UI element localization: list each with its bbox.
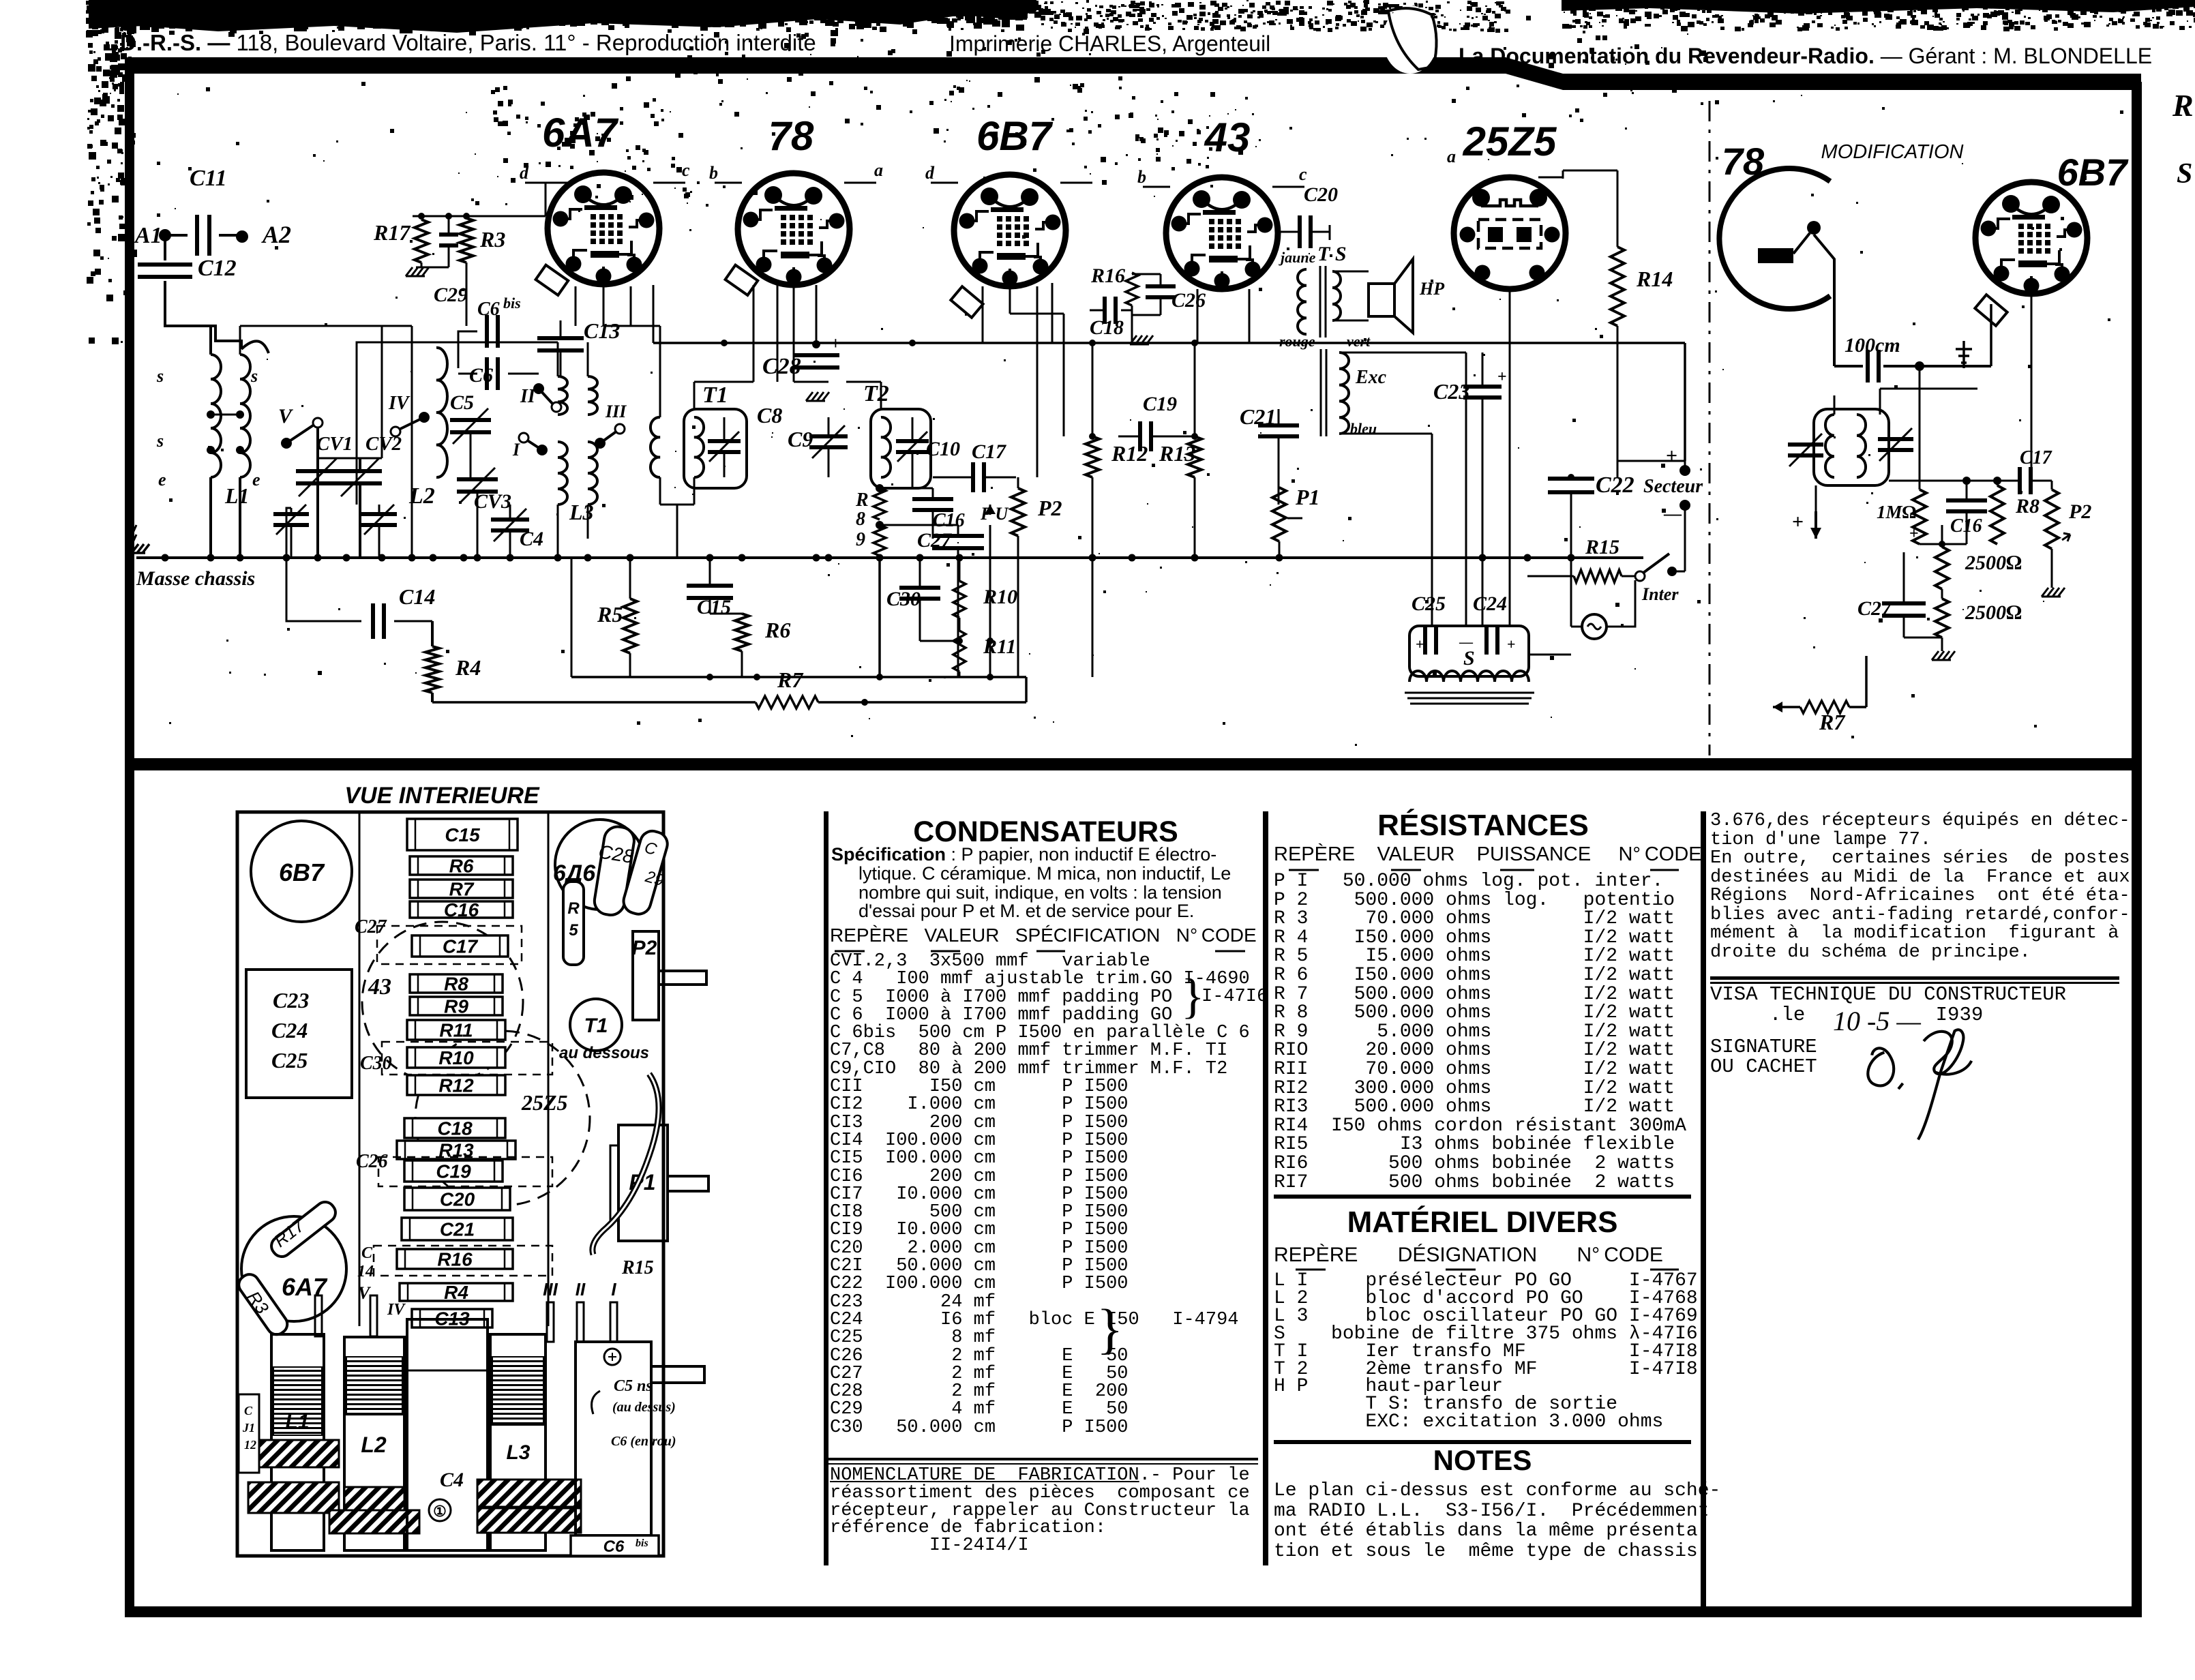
wires L3 to bus	[557, 505, 559, 558]
svg-text:C6: C6	[603, 1537, 625, 1556]
svg-text:C27: C27	[917, 529, 952, 552]
svg-text:R17: R17	[373, 220, 411, 245]
resistor R13	[1188, 436, 1201, 477]
switch I	[537, 445, 548, 455]
svg-text:100cm: 100cm	[1845, 334, 1900, 357]
resistor R8 (mod)	[1990, 485, 2004, 544]
mod wires	[1990, 304, 1992, 366]
svg-text:C: C	[244, 1404, 253, 1417]
svg-text:R7: R7	[449, 879, 475, 900]
svg-text:T1: T1	[702, 382, 728, 408]
svg-text:II: II	[520, 386, 536, 407]
svg-text:C21: C21	[1240, 404, 1276, 429]
frame bottom	[125, 1606, 2142, 1617]
svg-text:R7: R7	[1819, 710, 1846, 734]
trimmer C4	[491, 517, 529, 522]
svg-text:c: c	[1299, 164, 1307, 184]
svg-text:S: S	[2177, 158, 2192, 190]
potentiometer P2	[1011, 488, 1025, 536]
dashed circle 25Z5	[415, 1031, 590, 1205]
svg-text:I: I	[611, 1279, 616, 1300]
connector leads I II III	[547, 1302, 554, 1342]
capacitor C12	[138, 262, 192, 267]
svg-text:6A7: 6A7	[542, 110, 619, 155]
svg-text:C15: C15	[445, 824, 480, 845]
svg-text:C17: C17	[443, 936, 479, 957]
small antenna mark	[1956, 341, 1972, 368]
svg-text:R12: R12	[438, 1075, 474, 1096]
tube 6A7	[548, 172, 659, 284]
svg-text:R13: R13	[1159, 441, 1195, 466]
svg-text:I: I	[512, 440, 520, 460]
svg-text:C26: C26	[356, 1151, 388, 1172]
dashed C26	[378, 1157, 552, 1186]
svg-text:25Z5: 25Z5	[1463, 119, 1557, 164]
wire C12 to L1	[165, 281, 241, 349]
trimmer below CV1	[273, 512, 309, 516]
vertical wires misc	[1131, 315, 1133, 343]
resistor R9	[873, 525, 886, 556]
capacitor C29 cylinder	[621, 828, 670, 917]
coil tower L3	[490, 1334, 546, 1550]
wire 6A7 to T1	[603, 285, 605, 326]
ground bus	[136, 556, 1643, 559]
svg-text:C8: C8	[757, 403, 782, 427]
wire L1 top to bus	[209, 326, 212, 355]
capacitor C14	[286, 508, 361, 621]
svg-text:C19: C19	[436, 1161, 471, 1182]
wire secteur plus	[1617, 461, 1685, 470]
svg-text:b: b	[1137, 167, 1146, 187]
svg-text:C4: C4	[440, 1469, 464, 1491]
trimmer C9	[809, 434, 848, 438]
capacitor C18	[1103, 297, 1107, 324]
6A7 tag	[536, 265, 569, 295]
svg-text:c: c	[682, 160, 690, 180]
svg-text:C16: C16	[444, 899, 479, 920]
svg-text:5: 5	[569, 921, 578, 940]
svg-text:a: a	[874, 160, 883, 180]
chip C15	[407, 819, 518, 850]
svg-text:R: R	[855, 490, 869, 511]
coil L1 secondary	[240, 355, 250, 477]
svg-text:+: +	[1909, 525, 1919, 543]
resistor R4	[431, 621, 434, 646]
6B7mod tag	[1975, 295, 2007, 326]
svg-text:8: 8	[856, 509, 865, 530]
choke S winding	[1409, 671, 1529, 682]
wire rail y993	[571, 676, 1026, 678]
white blob in header bar	[1383, 5, 1437, 74]
svg-text:a: a	[1447, 147, 1456, 166]
svg-text:C: C	[361, 1244, 373, 1262]
6B7 tag	[951, 286, 983, 318]
wire exc to circuit	[1339, 352, 1466, 354]
capacitor C26	[1146, 284, 1176, 288]
page noise speckle	[89, 0, 1036, 33]
AC source	[1582, 614, 1607, 639]
svg-text:C14: C14	[399, 584, 435, 609]
svg-text:IV: IV	[387, 1301, 406, 1319]
transformer T1	[684, 409, 747, 488]
resistor 1M	[1913, 490, 1926, 544]
svg-text:R6: R6	[764, 618, 790, 642]
svg-text:Secteur: Secteur	[1643, 476, 1703, 497]
svg-text:J1: J1	[242, 1421, 255, 1435]
dash-dot separator	[1709, 101, 1711, 755]
potentiometer P1	[1272, 487, 1286, 541]
wire 6B7 connections	[982, 286, 984, 343]
resistor 2500b	[1935, 599, 1949, 637]
switch Inter	[1635, 571, 1645, 581]
chip C16	[410, 901, 513, 918]
chip C13	[412, 1309, 492, 1327]
svg-text:C5: C5	[450, 391, 474, 414]
signature	[1868, 1030, 1971, 1139]
svg-text:R11: R11	[983, 635, 1016, 658]
svg-text:2500Ω: 2500Ω	[1965, 601, 2022, 624]
capacitor C28	[816, 285, 818, 344]
svg-text:C6 (en rou): C6 (en rou)	[611, 1434, 676, 1449]
column rule 1	[824, 811, 828, 1565]
svg-text:R6: R6	[449, 856, 474, 877]
capacitor C21	[1258, 423, 1299, 427]
svg-text:P1: P1	[1295, 485, 1320, 509]
svg-text:d: d	[925, 163, 935, 183]
svg-text:R4: R4	[444, 1282, 468, 1303]
svg-text:R8: R8	[2015, 495, 2040, 517]
wire 78 plate to T2	[793, 285, 795, 382]
svg-text:9: 9	[856, 529, 865, 550]
wire top rail to 6A7	[421, 216, 423, 220]
svg-text:Inter: Inter	[1641, 584, 1679, 604]
svg-text:C30: C30	[886, 588, 921, 610]
svg-text:Exc: Exc	[1355, 367, 1387, 388]
svg-text:V: V	[278, 405, 294, 427]
svg-text:C30: C30	[360, 1053, 392, 1074]
dashed C30	[382, 1042, 552, 1075]
node A1	[159, 229, 171, 241]
svg-text:R: R	[2172, 88, 2194, 123]
resistor R17	[415, 220, 428, 262]
svg-text:C27: C27	[1857, 597, 1892, 620]
svg-text:T1: T1	[584, 1015, 608, 1037]
svg-text:C5 ns: C5 ns	[614, 1377, 653, 1395]
svg-text:A2: A2	[261, 221, 291, 248]
tube 6B7	[954, 175, 1066, 286]
chip R4	[400, 1283, 513, 1301]
capacitor C17	[933, 487, 963, 489]
svg-text:43: 43	[1204, 115, 1251, 160]
coil L3	[558, 376, 567, 415]
transformer T1 (chassis)	[570, 999, 622, 1051]
wire 25Z5 top	[1538, 177, 1563, 179]
small C11 C12 box	[239, 1394, 259, 1473]
svg-text:2500Ω: 2500Ω	[1965, 552, 2022, 574]
svg-text:A1: A1	[134, 223, 162, 248]
svg-text:R15: R15	[621, 1257, 654, 1278]
svg-text:C18: C18	[437, 1118, 473, 1139]
resistor R16	[1126, 273, 1138, 305]
coil top hook	[241, 341, 269, 353]
divider bar between schematic and lists	[125, 758, 2141, 770]
svg-text:C17: C17	[972, 440, 1006, 463]
column rule 2	[1263, 811, 1268, 1565]
svg-text:bis: bis	[636, 1537, 648, 1549]
trimmer below CV2	[361, 512, 397, 516]
wire 43 connections	[1197, 289, 1199, 343]
capacitor C16	[912, 497, 953, 501]
chip C18	[404, 1118, 505, 1138]
capacitor C28 cylinder	[593, 825, 636, 917]
variable capacitor CV3	[457, 477, 498, 481]
svg-text:①: ①	[433, 1503, 447, 1520]
wire T1 top/bottom	[693, 382, 696, 409]
svg-text:6B7: 6B7	[976, 113, 1054, 159]
coil tower L2	[344, 1337, 404, 1550]
svg-text:e: e	[252, 470, 260, 490]
C6bis box	[571, 1535, 659, 1556]
svg-text:R8: R8	[444, 974, 468, 995]
resistor R3	[460, 218, 473, 262]
column rule 3	[1701, 811, 1706, 1606]
capacitor C11	[165, 234, 188, 237]
capacitor C29	[439, 232, 458, 237]
svg-text:e: e	[158, 470, 166, 490]
tube 6B7 location	[251, 821, 352, 922]
switch IV	[419, 412, 430, 423]
svg-text:C9: C9	[788, 427, 813, 451]
svg-text:S: S	[1463, 647, 1475, 670]
svg-text:rouge: rouge	[1279, 333, 1315, 350]
svg-text:CV3: CV3	[474, 490, 511, 513]
svg-text:L1: L1	[285, 1411, 309, 1433]
capacitor C24	[1484, 627, 1489, 655]
mod IF transformer	[1814, 409, 1889, 485]
chip R8	[410, 974, 503, 993]
svg-text:C24: C24	[1473, 592, 1507, 615]
svg-text:R7: R7	[777, 667, 804, 692]
svg-text:III: III	[543, 1279, 558, 1300]
svg-text:P2: P2	[632, 937, 657, 959]
svg-text:vert: vert	[1347, 333, 1371, 350]
resistor R15	[1527, 575, 1574, 577]
capacitor C20	[1298, 215, 1302, 248]
svg-text:b: b	[709, 163, 718, 183]
chip C21	[402, 1218, 513, 1240]
resistor R7 inline	[432, 701, 756, 704]
wire R15 (chassis)	[593, 1074, 659, 1255]
chip R7	[410, 880, 513, 898]
svg-text:C27: C27	[355, 916, 387, 937]
tube 6D6 location	[555, 820, 645, 910]
variable capacitor CV1	[296, 469, 340, 473]
svg-text:6B7: 6B7	[279, 858, 325, 886]
chip R6	[410, 856, 513, 875]
resistor R7 (mod)	[1773, 706, 1800, 708]
wire T2 verticals	[880, 382, 882, 409]
resistor R8	[873, 488, 886, 520]
svg-text:R10: R10	[438, 1047, 474, 1068]
svg-text:(au dessus): (au dessus)	[612, 1400, 676, 1415]
right tower C5 C6	[576, 1342, 651, 1535]
svg-text:II: II	[576, 1279, 586, 1300]
svg-text:IV: IV	[388, 393, 410, 414]
dashed C14	[374, 1246, 552, 1276]
P2 shaft (chassis)	[706, 971, 707, 972]
capacitor C17 (mod)	[2018, 467, 2022, 494]
svg-text:C11: C11	[190, 166, 227, 191]
potentiometer P2 (mod)	[2045, 490, 2059, 549]
tube 78	[738, 173, 850, 285]
heater wire top	[753, 285, 755, 382]
resistor 2500a	[1935, 547, 1949, 589]
capacitor C22	[1548, 477, 1594, 481]
svg-text:L1: L1	[224, 483, 250, 508]
capacitor C15	[687, 584, 733, 588]
wire mod node	[1889, 480, 2005, 482]
capacitor C30	[899, 586, 940, 590]
svg-text:VUE INTERIEURE: VUE INTERIEURE	[344, 783, 540, 809]
capacitor C27	[932, 534, 984, 538]
svg-text:L3: L3	[569, 500, 594, 524]
svg-text:C23: C23	[1433, 379, 1469, 404]
capacitor C13	[537, 336, 584, 340]
svg-text:s: s	[156, 366, 164, 386]
wires 25Z5 to choke	[1465, 352, 1467, 626]
capacitor C19	[1138, 421, 1142, 451]
svg-text:R15: R15	[1585, 536, 1619, 558]
svg-text:C21: C21	[440, 1219, 475, 1240]
resistor R10	[953, 581, 966, 618]
svg-text:R10: R10	[983, 586, 1017, 608]
svg-text:P U: P U	[980, 504, 1009, 524]
svg-text:R5: R5	[597, 602, 623, 627]
header overline dashes	[835, 950, 865, 952]
svg-text:L3: L3	[506, 1441, 530, 1464]
6A7 pin arrows	[525, 182, 552, 184]
capacitor C25	[1423, 627, 1427, 655]
svg-text:R12: R12	[1111, 441, 1148, 466]
svg-text:MODIFICATION: MODIFICATION	[1821, 141, 1964, 163]
svg-text:C13: C13	[584, 318, 620, 343]
svg-text:Masse chassis: Masse chassis	[136, 567, 255, 590]
svg-text:L2: L2	[408, 483, 435, 509]
svg-text:C25: C25	[1412, 592, 1446, 615]
svg-text:C4: C4	[520, 528, 543, 550]
chip R13	[397, 1141, 516, 1159]
loudspeaker HP	[1332, 271, 1369, 273]
capacitor C16 (mod)	[1946, 498, 1987, 502]
choke S box	[1409, 626, 1529, 676]
chip R16	[397, 1249, 513, 1269]
resistor R3 (chassis)	[235, 1271, 291, 1338]
chip C20	[404, 1188, 510, 1210]
switch V	[281, 438, 292, 449]
header rule left	[125, 57, 1506, 74]
svg-text:C25: C25	[271, 1048, 308, 1072]
svg-text:R4: R4	[455, 655, 481, 680]
svg-text:CV1: CV1	[316, 433, 353, 455]
svg-text:R3: R3	[479, 227, 505, 252]
svg-text:C6: C6	[477, 299, 500, 320]
svg-text:R9: R9	[444, 996, 468, 1017]
svg-text:—: —	[1663, 504, 1682, 524]
svg-text:C19: C19	[1143, 393, 1177, 415]
resistor R11	[953, 631, 966, 672]
header rule right	[1506, 57, 1563, 90]
chassis outline	[237, 812, 663, 1556]
L1 taps	[207, 410, 215, 419]
L2 assembly	[357, 342, 436, 505]
coil tower L1	[271, 1334, 324, 1550]
svg-text:C17: C17	[2020, 447, 2052, 468]
svg-text:C23: C23	[273, 988, 309, 1012]
svg-text:R16: R16	[437, 1249, 473, 1270]
svg-text:HP: HP	[1419, 279, 1445, 299]
svg-text:L2: L2	[361, 1432, 387, 1457]
svg-text:C24: C24	[271, 1018, 308, 1042]
resistor R17 (chassis)	[267, 1198, 339, 1260]
svg-text:+: +	[1497, 368, 1507, 386]
svg-text:C15: C15	[697, 596, 731, 618]
chip R9	[410, 997, 503, 1015]
tube 6A7 location	[241, 1216, 346, 1321]
svg-text:s: s	[250, 366, 258, 386]
capacitor C23	[1463, 385, 1502, 389]
switch II	[533, 383, 544, 394]
dashed C27	[377, 926, 522, 964]
node A2	[236, 230, 248, 243]
switch III	[595, 438, 606, 449]
resistor R6	[735, 614, 749, 651]
resistor R14	[1611, 247, 1624, 326]
svg-text:+: +	[1507, 635, 1516, 652]
frame left	[125, 57, 134, 1617]
svg-text:s: s	[156, 431, 164, 451]
potentiometer P2 (chassis)	[633, 931, 659, 1020]
svg-text:43: 43	[368, 974, 391, 1000]
svg-text:C10: C10	[926, 438, 960, 460]
chip C17	[412, 935, 508, 957]
chip R12	[407, 1075, 505, 1095]
B+ rail	[653, 342, 1685, 344]
svg-text:III: III	[605, 402, 627, 421]
svg-text:P2: P2	[2068, 500, 2091, 523]
tube 43	[1166, 177, 1278, 289]
coil L2	[428, 342, 641, 443]
resistor R12	[1086, 436, 1099, 477]
svg-text:R16: R16	[1090, 265, 1125, 287]
svg-text:14: 14	[357, 1263, 374, 1280]
frame right	[2132, 82, 2142, 1617]
svg-text:C20: C20	[1304, 183, 1338, 206]
chip R11	[407, 1020, 505, 1040]
svg-text:+: +	[1666, 445, 1677, 467]
tube 25Z5	[1454, 177, 1566, 289]
dashed circle 43	[362, 922, 523, 1083]
svg-text:C29: C29	[434, 284, 468, 306]
svg-text:R: R	[567, 899, 580, 918]
capacitor C6bis	[485, 315, 489, 348]
svg-text:P2: P2	[1037, 496, 1062, 520]
chip R10	[407, 1047, 505, 1068]
wire L1 bottoms	[209, 477, 212, 558]
svg-text:C16: C16	[933, 510, 965, 531]
svg-text:T S: T S	[1317, 243, 1347, 265]
middle tower C4	[407, 1319, 488, 1550]
svg-text:C20: C20	[440, 1189, 475, 1210]
